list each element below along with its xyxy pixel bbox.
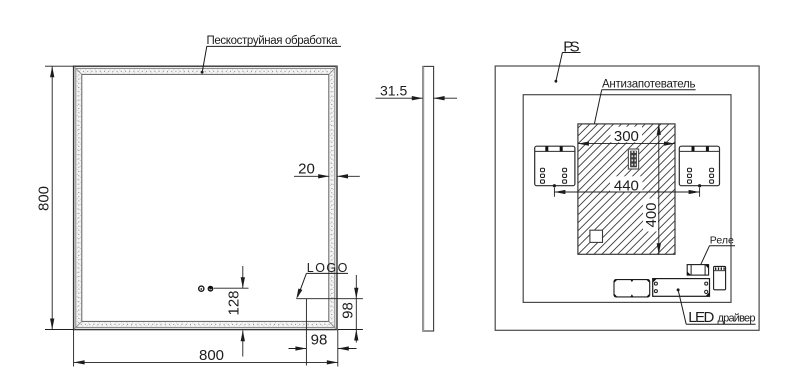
terminal strip box xyxy=(714,266,726,289)
anti-fog heater hatched pad xyxy=(578,124,675,254)
touch sensor dots xyxy=(199,286,214,292)
sandblasted stipple band xyxy=(79,71,332,324)
dimension 98 vertical (logo up from bottom) xyxy=(338,275,363,343)
dimension 98 horizontal (logo from right edge) xyxy=(289,331,357,350)
label LOGO xyxy=(296,261,348,299)
dimension 128 sensor height xyxy=(214,266,249,357)
side view glass slab xyxy=(423,66,434,331)
svg-text:Антизапотеватель: Антизапотеватель xyxy=(602,79,696,91)
dimension 31.5 thickness xyxy=(376,82,458,100)
svg-text:Реле: Реле xyxy=(710,235,734,247)
dimension 440 bracket span xyxy=(554,177,699,196)
label Реле xyxy=(698,235,735,270)
dimension 400 heater height xyxy=(643,124,661,254)
heater terminal block xyxy=(628,149,638,169)
frame corner miters xyxy=(74,67,337,330)
mirror front inner frame line xyxy=(82,74,329,321)
svg-text:Пескоструйная обработка: Пескоструйная обработка xyxy=(207,35,339,47)
dimension 800 left xyxy=(45,66,74,329)
label PS xyxy=(555,38,581,82)
rear view outer square (PS panel) xyxy=(495,66,759,330)
svg-text:98: 98 xyxy=(311,331,328,348)
svg-text:400: 400 xyxy=(643,202,660,227)
svg-text:LED: LED xyxy=(688,309,714,326)
dimension 20 border width xyxy=(294,160,360,178)
junction box xyxy=(614,280,650,297)
svg-text:98: 98 xyxy=(339,302,356,319)
white masks behind heater dimension text xyxy=(610,127,658,232)
mirror front view outer frame xyxy=(74,66,337,329)
svg-text:300: 300 xyxy=(614,128,639,145)
relay box xyxy=(687,265,708,276)
svg-text:800: 800 xyxy=(35,186,52,211)
rear view inner square xyxy=(523,95,731,303)
logo extension lines xyxy=(296,299,363,366)
dimension 800 bottom xyxy=(74,330,338,367)
right mounting bracket xyxy=(679,146,719,187)
svg-text:31.5: 31.5 xyxy=(380,82,407,98)
label: Пескоструйная обработка xyxy=(201,35,341,74)
heater cutout square xyxy=(590,230,603,242)
label LED драйвер xyxy=(678,290,756,326)
svg-text:128: 128 xyxy=(226,290,243,315)
dimension 300 heater width xyxy=(578,128,675,146)
svg-text:800: 800 xyxy=(199,347,224,364)
left mounting bracket xyxy=(535,146,575,187)
svg-text:драйвер: драйвер xyxy=(718,312,756,324)
svg-text:20: 20 xyxy=(298,160,315,177)
svg-text:LOGO: LOGO xyxy=(307,261,348,275)
label Антизапотеватель xyxy=(591,79,695,133)
LED driver box xyxy=(653,279,710,297)
